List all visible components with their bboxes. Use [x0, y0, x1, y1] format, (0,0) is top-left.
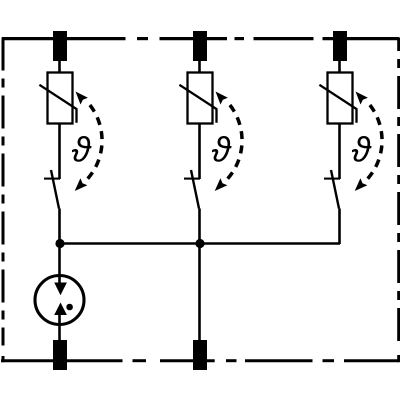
wire [338, 124, 341, 180]
varistor RV1 diagonal [39, 85, 76, 123]
wire [58, 61, 61, 73]
varistor RV1 body [48, 73, 73, 124]
label theta 3 [352, 136, 372, 162]
thermal disconnector F2 blade [191, 170, 199, 209]
arrowhead up 1 [76, 92, 88, 105]
U1 wire inside top [58, 277, 61, 290]
branch 2 [179, 31, 242, 370]
right border dash-dot line [397, 38, 400, 362]
varistor RV2 body [188, 73, 213, 124]
wire [198, 209, 201, 342]
terminal X5 (bottom) [193, 340, 207, 370]
node junction J1 [55, 239, 64, 248]
bus wire (horizontal) [60, 242, 340, 245]
varistor RV3 diagonal [319, 85, 356, 123]
thermal disconnector F2 tick [184, 178, 200, 180]
terminal X1 (top) [53, 31, 67, 61]
varistor RV3 body [328, 73, 353, 124]
terminal X2 (top) [193, 31, 207, 61]
terminal X4 (bottom) [53, 340, 67, 370]
label theta 1 [72, 136, 92, 162]
left border dash-dot line [2, 38, 5, 363]
arrowhead down 1 [75, 178, 88, 191]
node junction J2 [195, 239, 204, 248]
thermal disconnector F1 tick [44, 178, 60, 180]
wire [58, 124, 61, 180]
wire [198, 61, 201, 73]
dashed arrow arc 2 [228, 105, 242, 179]
thermal disconnector F3 tick [324, 178, 340, 180]
branch 3 [319, 31, 382, 244]
wire [58, 314, 61, 341]
thermal disconnector F3 blade [331, 170, 339, 209]
bottom border dash-dot line [1, 359, 399, 362]
dashed arrow arc 1 [88, 105, 102, 179]
arrowhead down 2 [215, 178, 228, 191]
dashed arrow arc 3 [368, 105, 382, 179]
U1 bottom triangle [54, 303, 67, 316]
arrowhead up 3 [356, 92, 368, 105]
arrowhead up 2 [216, 92, 228, 105]
top border dash-dot line [2, 37, 400, 40]
wire [338, 61, 341, 73]
arrowhead down 3 [355, 178, 368, 191]
gas discharge tube U1 circle [35, 276, 84, 325]
thermal disconnector F1 blade [51, 170, 59, 209]
wire [58, 209, 61, 278]
wire [338, 209, 341, 245]
branch 1 [35, 31, 102, 370]
wire [198, 124, 201, 180]
label theta 2 [212, 136, 232, 162]
terminal X3 (top) [333, 31, 347, 61]
U1 dot [66, 304, 73, 311]
U1 top triangle [54, 283, 67, 296]
varistor RV2 diagonal [179, 85, 216, 123]
